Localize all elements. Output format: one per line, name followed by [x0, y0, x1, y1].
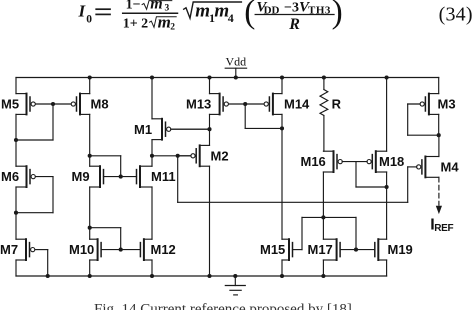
svg-text:REF: REF [434, 223, 453, 234]
svg-text:M16: M16 [301, 154, 326, 169]
svg-text:M9: M9 [72, 169, 90, 184]
svg-text:Fig. 14 Current reference prop: Fig. 14 Current reference proposed by [1… [94, 302, 352, 310]
svg-text:m: m [195, 0, 210, 21]
svg-text:−3: −3 [284, 0, 299, 15]
svg-text:M13: M13 [186, 97, 211, 112]
svg-text:M4: M4 [441, 160, 460, 175]
svg-text:M1: M1 [134, 122, 152, 137]
svg-text:M19: M19 [388, 242, 413, 257]
svg-text:M10: M10 [69, 242, 94, 257]
svg-text:M8: M8 [91, 97, 109, 112]
svg-text:M15: M15 [260, 242, 285, 257]
svg-text:M14: M14 [284, 97, 310, 112]
svg-text:1+ 2: 1+ 2 [123, 16, 148, 31]
svg-text:m: m [150, 0, 162, 12]
svg-text:M11: M11 [151, 169, 176, 184]
svg-text:M7: M7 [0, 242, 18, 257]
svg-text:M6: M6 [1, 169, 19, 184]
svg-text:TH3: TH3 [308, 4, 331, 16]
svg-text:DD: DD [264, 4, 280, 16]
svg-text:R: R [288, 16, 300, 33]
svg-text:M3: M3 [438, 97, 456, 112]
svg-text:2: 2 [170, 23, 175, 33]
svg-text:): ) [332, 0, 343, 31]
svg-text:M2: M2 [211, 148, 229, 163]
svg-text:0: 0 [86, 13, 92, 25]
svg-text:M18: M18 [379, 154, 404, 169]
svg-text:M12: M12 [151, 242, 176, 257]
svg-text:(: ( [244, 0, 255, 31]
svg-text:m: m [158, 12, 171, 31]
svg-text:R: R [332, 97, 342, 112]
svg-text:M5: M5 [1, 97, 19, 112]
svg-text:(34): (34) [439, 4, 473, 26]
svg-text:Vdd: Vdd [225, 55, 246, 69]
svg-text:4: 4 [228, 11, 234, 25]
svg-text:M17: M17 [308, 242, 333, 257]
svg-text:1−: 1− [126, 0, 141, 12]
